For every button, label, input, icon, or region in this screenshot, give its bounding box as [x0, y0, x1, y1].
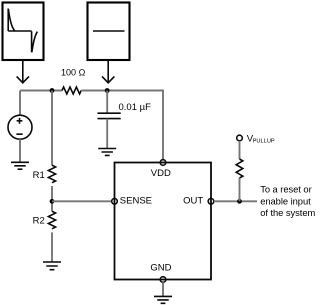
ground (IC) [154, 296, 172, 303]
wire: rail after resistor to VDD corner [81, 91, 163, 160]
IC U1 supervisor [115, 163, 212, 280]
node: OUT / pullup junction [237, 199, 242, 204]
wire: R2 to ground [51, 232, 53, 261]
svg-text:PULLUP: PULLUP [253, 139, 275, 145]
pin SENSE [112, 199, 118, 205]
wire: source to ground [19, 139, 21, 162]
transient source box (top-left) [3, 3, 44, 61]
DC level line inside box [93, 30, 125, 32]
pin VDD [160, 160, 166, 166]
svg-text:To a reset or: To a reset or [260, 184, 311, 195]
DC source box (top-middle) [88, 3, 130, 61]
wire: OUT to system [214, 200, 257, 202]
wire: divider branch down to R1 [51, 91, 53, 166]
wire: top horizontal rail [20, 90, 62, 92]
wire: GND pin to ground [162, 282, 164, 296]
wire: capacitor to ground [106, 119, 108, 149]
wire: sense wire [52, 200, 112, 202]
resistor R2 [48, 211, 55, 229]
wire: capacitor top [106, 91, 108, 113]
svg-text:OUT: OUT [183, 195, 203, 206]
ground (source) [11, 162, 29, 169]
arrow from transient box [17, 60, 29, 83]
svg-text:R2: R2 [33, 216, 45, 227]
svg-text:0.01 µF: 0.01 µF [119, 102, 152, 113]
ground (capacitor) [98, 149, 116, 156]
capacitor C1 0.01uF [98, 113, 121, 118]
voltage source V1 [8, 115, 32, 139]
svg-text:100 Ω: 100 Ω [61, 68, 86, 78]
resistor 100 ohm [62, 87, 81, 94]
ground (divider) [43, 262, 61, 270]
svg-text:of the system: of the system [260, 207, 315, 218]
svg-text:enable input: enable input [260, 195, 311, 206]
wire: pullup bottom [239, 178, 241, 201]
pin GND [160, 277, 166, 283]
node: rail / capacitor junction [105, 88, 110, 93]
arrow from DC box [102, 60, 114, 83]
resistor Rpullup [236, 159, 243, 178]
terminal VPULLUP [237, 135, 243, 141]
wire: between R1 and R2 [51, 186, 53, 211]
node: divider midpoint [50, 199, 55, 204]
transient waveform inside box [8, 9, 37, 53]
node: rail / divider junction [50, 88, 55, 93]
svg-text:GND: GND [150, 263, 171, 274]
svg-text:R1: R1 [33, 170, 45, 181]
wire: pullup top [239, 141, 241, 159]
svg-text:VDD: VDD [151, 168, 171, 179]
svg-text:SENSE: SENSE [120, 195, 152, 206]
wire: left drop to source [19, 91, 21, 116]
resistor R1 [48, 165, 55, 183]
pin OUT [208, 199, 214, 205]
